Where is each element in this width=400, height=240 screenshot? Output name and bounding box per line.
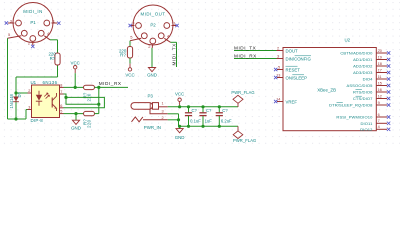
svg-text:1N4148: 1N4148 (9, 93, 14, 108)
svg-text:P3: P3 (148, 94, 154, 99)
svg-text:P2: P2 (150, 23, 156, 28)
svg-text:C?: C? (192, 108, 198, 113)
U1 pin 6 stub (60, 107, 64, 109)
wire P2 pin5 to R2 (129, 41, 131, 47)
svg-text:U2: U2 (345, 37, 351, 42)
svg-text:DOUT: DOUT (286, 48, 299, 53)
U2 pin 15 ASSOC/DIO5 (no connect) (376, 85, 387, 87)
wire diode branch vertical (15, 77, 17, 119)
PWR_FLAG bottom (on GND rail) (237, 126, 239, 131)
junction GND rail left (178, 125, 181, 128)
U2 pin 16 RTS/DIO6 (no connect) (376, 91, 387, 93)
svg-text:20: 20 (378, 49, 382, 53)
svg-text:DIO4: DIO4 (363, 77, 374, 82)
svg-text:3: 3 (162, 110, 164, 114)
U2 pin 12 CTS/DIO7 (no connect) (376, 98, 387, 100)
wire P2 pin4 MIDI_TX (171, 41, 177, 43)
junction C3 bottom (218, 125, 221, 128)
junction GND tap (74, 112, 77, 115)
junction VCC at rail (178, 105, 181, 108)
svg-text:XBee_ZB: XBee_ZB (317, 88, 336, 93)
junction pin2 join (177, 118, 180, 121)
svg-text:RSSI_PWM/DIO10: RSSI_PWM/DIO10 (336, 115, 373, 120)
U2 pin 19 AD1/DIO1 (no connect) (376, 59, 387, 61)
junction at diode bottom (14, 117, 17, 120)
svg-text:9: 9 (378, 101, 380, 105)
GND symbol under opto (72, 120, 79, 124)
GND rail under caps (179, 125, 239, 127)
U2 pin 9 DTR/SLEEP_RQ/DIO8 (no connect) (376, 104, 387, 106)
P1 pin 3 stub (no connect) (8, 22, 15, 24)
svg-text:VCC: VCC (71, 60, 80, 65)
wire R2 to VCC (129, 58, 131, 64)
svg-text:5: 5 (278, 65, 280, 69)
wire to opto pin 2 (16, 92, 28, 94)
PWR_FLAG top (on VCC rail) (233, 95, 243, 107)
junction C2 top (201, 105, 204, 108)
U2 pin 3 stub (277, 58, 284, 60)
capacitor C1 (0.1uF) (188, 107, 190, 113)
svg-text:7: 7 (378, 119, 380, 123)
junction C1 bottom (187, 125, 190, 128)
svg-text:ON/SLEEP: ON/SLEEP (286, 75, 308, 80)
svg-text:12: 12 (378, 94, 382, 98)
svg-text:MIDI_RX: MIDI_RX (234, 54, 257, 59)
U2 pin 20 CBTN/AD0/DIO0 (no connect) (376, 52, 387, 54)
P2 pin 3 stub (no connect) (131, 25, 135, 27)
P3 pin 1 stub (159, 106, 168, 108)
junction diode top (14, 91, 17, 94)
VCC power symbol under R2 (inverted) (128, 68, 131, 71)
wire R1 bottom (57, 65, 59, 77)
svg-text:15: 15 (378, 81, 382, 85)
svg-text:MIDI_IN: MIDI_IN (23, 9, 43, 14)
svg-text:1: 1 (162, 102, 164, 106)
wire from R1 to diode branch (16, 76, 58, 78)
junction VCC/pin8 (74, 86, 77, 89)
svg-text:PWR_IN: PWR_IN (144, 125, 161, 130)
resistor RA pullup 220 (84, 85, 95, 89)
wire pin8 to RA (64, 86, 84, 88)
wire to opto pin 3 (25, 110, 27, 120)
capacitor C2 (1uF) (202, 107, 204, 113)
wire P2 pin2 to GND (151, 48, 153, 68)
svg-text:DIO12: DIO12 (360, 127, 373, 132)
capacitor C3 (6.2uF) (218, 107, 220, 113)
svg-text:3: 3 (28, 106, 30, 110)
U2 pin 7 DIO11 (no connect) (376, 122, 387, 124)
svg-text:CBTN/AD0/DIO0: CBTN/AD0/DIO0 (340, 51, 373, 56)
U1 pin 2 stub (28, 92, 32, 94)
svg-text:6.2uF: 6.2uF (221, 118, 232, 123)
wire pin 7 jog down (64, 94, 99, 104)
wire pin 6 loop (64, 97, 105, 107)
svg-text:GND: GND (175, 135, 185, 140)
svg-text:4: 4 (378, 125, 380, 129)
svg-text:AD2/DIO2: AD2/DIO2 (353, 64, 373, 69)
wire MIDI_TX to XBee DOUT (234, 50, 277, 52)
U1 pin 7 stub (60, 93, 64, 95)
junction C2 bottom (201, 125, 204, 128)
wire pin3/pin2 merge (168, 113, 179, 115)
GND symbol under caps (179, 126, 181, 128)
svg-text:DIO11: DIO11 (361, 121, 374, 126)
junction pin7/bus (97, 103, 100, 106)
module U2 XBee body (283, 48, 376, 131)
VCC power symbol near U1 (74, 66, 77, 69)
U2 pin 14 stub (no connect) (277, 101, 283, 103)
junction C3 top (218, 105, 221, 108)
P3 pin 2 wire (143, 119, 168, 121)
wire MIDI_RX to XBee DIN (234, 58, 277, 60)
svg-text:C?: C? (222, 108, 228, 113)
svg-text:18: 18 (378, 62, 382, 66)
svg-text:6N136: 6N136 (43, 80, 58, 85)
wire P1 pin 4 to R1 (50, 39, 58, 41)
P1 pin 2 stub (no connect) (32, 42, 34, 45)
svg-text:PWR_FLAG: PWR_FLAG (231, 90, 254, 95)
svg-text:RESET: RESET (286, 67, 301, 72)
wire GND drop (75, 114, 77, 121)
svg-text:2: 2 (277, 46, 279, 50)
svg-text:MIDI_TX: MIDI_TX (172, 43, 177, 66)
svg-text:16: 16 (378, 88, 382, 92)
op-to coupler U1 6N136 body (32, 85, 60, 118)
junction pin7/pin6 tie (64, 96, 67, 99)
connector P1 MIDI_IN (DIN-5) (13, 3, 53, 43)
svg-text:ASSOC/DIO5: ASSOC/DIO5 (347, 83, 374, 88)
U2 pin 18 AD2/DIO2 (no connect) (376, 65, 387, 67)
svg-text:MIDI_TX: MIDI_TX (234, 46, 257, 51)
svg-text:GND: GND (147, 73, 157, 78)
svg-text:GND: GND (71, 125, 81, 130)
svg-text:P1: P1 (30, 20, 36, 25)
U1 internal transistor (51, 98, 53, 108)
junction MIDI_RX (97, 86, 100, 89)
wire bottom horizontal to diode branch (8, 118, 27, 120)
wire MIDI_RX from RA (95, 86, 129, 88)
U2 pin 13 stub (no connect) (277, 77, 283, 79)
svg-text:MIDI_OUT: MIDI_OUT (141, 11, 166, 16)
svg-text:2: 2 (28, 89, 30, 93)
svg-text:DTR/SLEEP_RQ/DIO8: DTR/SLEEP_RQ/DIO8 (329, 103, 373, 108)
svg-text:2: 2 (162, 116, 164, 120)
resistor RB 220 (84, 111, 95, 115)
wire pin 5 to RB (64, 113, 84, 115)
U2 pin 11 DIO4 (no connect) (376, 78, 387, 80)
svg-text:220: 220 (87, 119, 92, 127)
svg-text:R?: R? (120, 52, 126, 57)
P1 pin 5 stub (8, 36, 22, 38)
svg-text:VREF: VREF (286, 99, 298, 104)
resistor R1 220 (55, 53, 60, 65)
svg-text:C?: C? (206, 108, 212, 113)
svg-text:DIP-8: DIP-8 (31, 118, 44, 123)
svg-text:1uF: 1uF (205, 118, 213, 123)
P2 pin 2 stub (151, 44, 153, 48)
U1 internal light arrows (44, 93, 48, 97)
U2 pin 4 DIO12 (no connect) (376, 128, 387, 130)
U1 pin 3 stub (28, 109, 32, 111)
svg-text:VCC: VCC (175, 91, 184, 96)
junction C1 top (187, 105, 190, 108)
svg-text:19: 19 (378, 55, 382, 59)
P3 sleeve zigzag (132, 117, 143, 122)
svg-text:11: 11 (378, 75, 382, 79)
svg-text:AD1/DIO1: AD1/DIO1 (353, 57, 373, 62)
svg-text:3: 3 (277, 54, 279, 58)
wire RB right end to bus (95, 113, 99, 115)
svg-text:5: 5 (60, 110, 62, 114)
P2 pin 4 stub (164, 38, 170, 42)
connector P2 MIDI_OUT (DIN-5) (133, 5, 173, 45)
wire VCC down to pin8 line (74, 69, 76, 73)
U2 pin 6 RSSI_PWM/DIO10 (no connect) (376, 116, 387, 118)
P2 pin 5 stub (130, 38, 141, 41)
svg-text:AD3/DIO3: AD3/DIO3 (353, 70, 373, 75)
svg-text:6: 6 (378, 113, 380, 117)
svg-text:0.1uF: 0.1uF (190, 118, 201, 123)
svg-text:D?: D? (17, 91, 22, 97)
U2 pin 5 stub (no connect) (277, 69, 283, 71)
svg-text:DIN/CONFIG: DIN/CONFIG (286, 56, 312, 61)
svg-text:8: 8 (60, 84, 62, 88)
P3 pin 3 step (150, 109, 168, 114)
svg-text:PWR_FLAG: PWR_FLAG (233, 138, 256, 143)
U1 pin 8 stub (60, 86, 64, 88)
resistor R2 220 (127, 47, 132, 59)
svg-text:R?: R? (50, 56, 56, 61)
svg-text:CTS/DIO7: CTS/DIO7 (353, 96, 373, 101)
U1 pin 5 stub (60, 113, 64, 115)
svg-text:VCC: VCC (125, 73, 134, 78)
U1 internal LED (36, 95, 42, 101)
GND symbol under P2 (148, 68, 155, 72)
U2 pin 17 AD3/DIO3 (no connect) (376, 72, 387, 74)
svg-text:RTS/DIO6: RTS/DIO6 (353, 90, 373, 95)
svg-text:6: 6 (60, 104, 62, 108)
P2 pin 1 stub (no connect) (172, 25, 177, 27)
diode D1 1N4148 (13, 97, 19, 102)
wire pin1 to VCC rail (168, 106, 238, 108)
connector P3 barrel jack body (131, 103, 153, 110)
svg-text:17: 17 (378, 68, 382, 72)
P1 pin 4 stub (44, 36, 50, 40)
svg-text:MIDI_RX: MIDI_RX (99, 81, 122, 86)
P1 pin 1 stub (no connect) (52, 22, 58, 24)
svg-text:U1: U1 (31, 80, 37, 85)
VCC power symbol at P3 (178, 98, 181, 101)
svg-text:7: 7 (60, 90, 62, 94)
U2 pin 2 stub (277, 50, 284, 52)
wire P1 pin 5 down (7, 38, 9, 119)
wire vertical bus right of opto (98, 87, 100, 113)
